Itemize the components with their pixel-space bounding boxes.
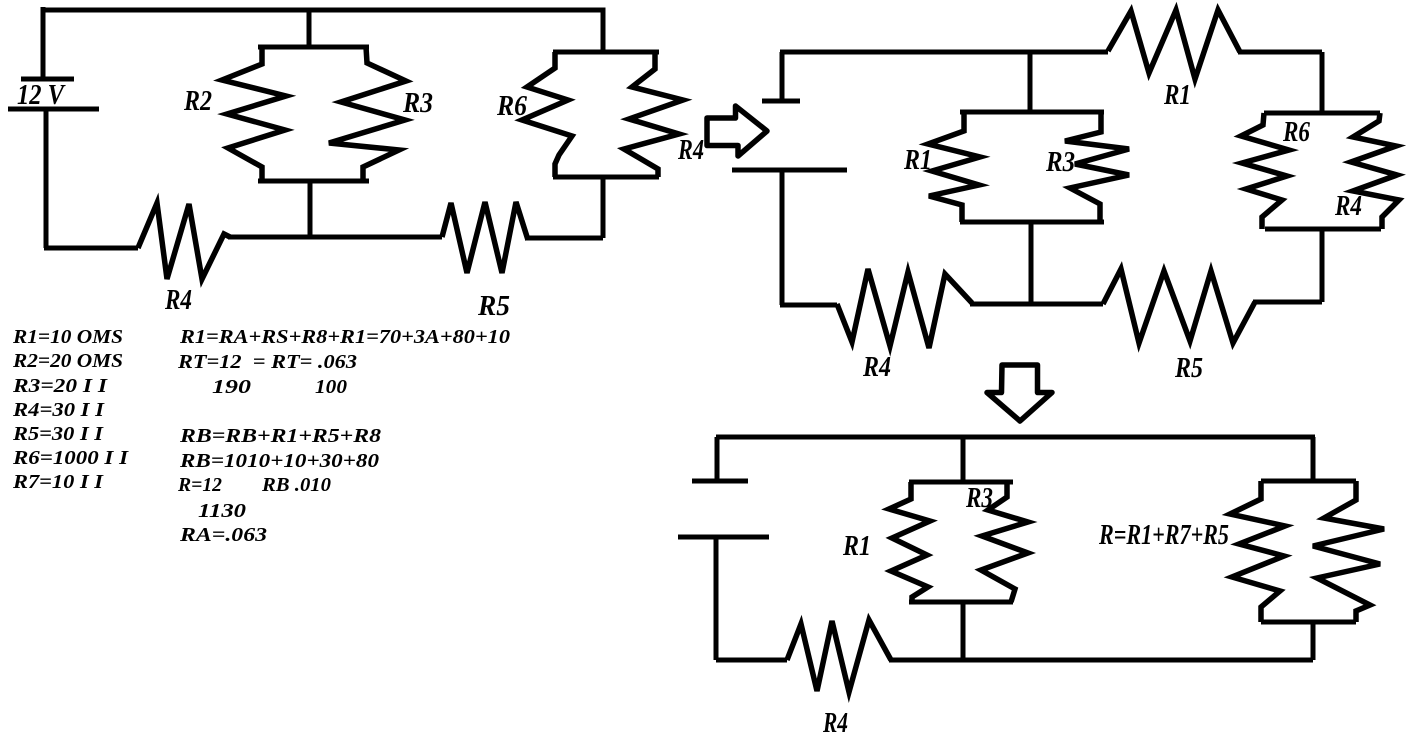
resistor R3 (329, 47, 406, 181)
wire bottom-left C2 (780, 303, 837, 308)
wire stub top pair R1R3 C2 (1028, 52, 1033, 112)
resistor R4 circuit2 (837, 269, 972, 348)
node pair R1R3 top bar C3 (909, 480, 1013, 485)
svg-text:R1: R1 (1163, 80, 1191, 111)
svg-text:RT=12 = RT= .063: RT=12 = RT= .063 (177, 351, 357, 373)
wire stub bottom right pair C3 (1311, 622, 1316, 660)
wire battery bottom lead C1 (44, 110, 49, 248)
node pair R2R3 top bar (258, 45, 369, 50)
svg-text:R6: R6 (496, 91, 527, 122)
svg-text:1130: 1130 (198, 500, 246, 522)
battery B3 negative terminal (678, 535, 769, 540)
svg-text:R6: R6 (1282, 117, 1310, 148)
wire top circuit1 (41, 10, 603, 52)
resistor R1 circuit2 (928, 112, 980, 222)
wire battery top lead C3 (715, 437, 720, 480)
resistor R4 circuit1 (138, 203, 230, 279)
wire bottom-right C1 (527, 236, 603, 241)
svg-text:R7=10 I I: R7=10 I I (12, 471, 104, 493)
svg-text:R2: R2 (183, 86, 212, 117)
svg-text:R3: R3 (1045, 147, 1075, 178)
resistor right of right pair C3 (1313, 481, 1384, 622)
svg-text:R3=20 I I: R3=20 I I (12, 375, 109, 397)
wire bottom-right C3 (889, 658, 1313, 663)
resistor R3 circuit2 (1065, 112, 1129, 222)
arrow down block (987, 365, 1052, 421)
svg-text:R=12: R=12 (177, 474, 222, 496)
node pair R1R3 bottom bar C3 (909, 600, 1013, 605)
wire right vertical top C2 (1320, 52, 1325, 113)
resistor R4 circuit2 pair (1351, 113, 1399, 229)
wire battery bottom lead C2 (780, 171, 785, 305)
battery B1 positive terminal (21, 77, 74, 82)
wire right vertical top C3 (1311, 437, 1316, 481)
battery B2 positive terminal (762, 99, 800, 104)
wire stub bottom pair R1R3 C3 (961, 602, 966, 660)
svg-text:R4: R4 (164, 285, 192, 316)
battery B1 negative terminal (8, 107, 99, 112)
svg-text:RB=1010+10+30+80: RB=1010+10+30+80 (179, 450, 379, 472)
svg-text:190: 190 (212, 376, 251, 398)
wire stub top pair R1R3 C3 (961, 437, 966, 482)
resistor R4 circuit3 (787, 620, 891, 692)
svg-text:R1: R1 (842, 531, 871, 562)
battery B2 negative terminal (732, 168, 847, 173)
resistor R1 circuit3 (889, 482, 930, 602)
svg-text:R4=30 I I: R4=30 I I (12, 399, 106, 421)
node pair R6R4 bottom bar (553, 175, 659, 180)
svg-text:RB=RB+R1+R5+R8: RB=RB+R1+R5+R8 (179, 425, 381, 447)
battery B3 positive terminal (692, 479, 748, 484)
resistor left of right pair C3 (1230, 481, 1285, 622)
wire battery bottom lead C3 (714, 538, 719, 660)
wire right stub up C1 (601, 179, 606, 238)
resistor R4 right of R6 (624, 52, 683, 177)
resistor R6 (522, 52, 572, 177)
svg-text:R5: R5 (1174, 353, 1203, 384)
node pair R6R4 bottom bar C2 (1265, 227, 1381, 232)
resistor R6 circuit2 (1241, 113, 1289, 229)
svg-text:R3: R3 (965, 483, 993, 514)
svg-text:RA=.063: RA=.063 (179, 524, 267, 546)
node pair R2R3 bottom bar (258, 179, 369, 184)
resistor R5 circuit2 (1103, 269, 1255, 343)
wire top circuit2 right (1238, 50, 1322, 55)
svg-text:R1: R1 (903, 145, 932, 176)
wire battery top lead C1 (41, 7, 46, 78)
node pair R1R3 top bar C2 (960, 110, 1104, 115)
svg-text:R2=20 OMS: R2=20 OMS (12, 350, 123, 372)
wire right vertical bottom C2 (1320, 229, 1325, 302)
svg-text:R5=30 I I: R5=30 I I (12, 423, 104, 445)
node pair R6R4 top bar C2 (1264, 111, 1380, 116)
wire top circuit2 left (780, 50, 1108, 55)
node pair R6R4 top bar (553, 50, 659, 55)
svg-text:R4: R4 (822, 708, 848, 739)
node pair right bottom bar C3 (1261, 620, 1356, 625)
wire bottom-left C1 (44, 246, 138, 251)
wire stub top to pair R2R3 (307, 10, 312, 47)
svg-text:R5: R5 (477, 291, 510, 322)
svg-text:RB .010: RB .010 (261, 474, 331, 496)
resistor R3 circuit3 (981, 482, 1028, 602)
svg-text:100: 100 (315, 376, 347, 398)
svg-text:R4: R4 (677, 135, 704, 166)
svg-text:R4: R4 (862, 352, 891, 383)
wire bottom-right C2 (1253, 300, 1322, 305)
svg-text:12 V: 12 V (17, 80, 66, 111)
svg-text:R6=1000 I I: R6=1000 I I (12, 447, 130, 469)
svg-text:R3: R3 (402, 88, 433, 119)
svg-text:R1=10 OMS: R1=10 OMS (12, 326, 123, 348)
resistor R2 (222, 47, 286, 181)
arrow right block (707, 106, 767, 156)
svg-text:R1=RA+RS+R8+R1=70+3A+80+10: R1=RA+RS+R8+R1=70+3A+80+10 (179, 326, 510, 348)
wire bottom-mid C1 (228, 235, 442, 240)
node pair right top bar C3 (1261, 479, 1356, 484)
wire bottom-left C3 (716, 658, 787, 663)
resistor R5 circuit1 (442, 202, 528, 273)
wire top circuit3 (716, 435, 1315, 440)
resistor R1 top circuit2 (1108, 10, 1240, 79)
svg-text:R4: R4 (1334, 191, 1362, 222)
svg-text:R=R1+R7+R5: R=R1+R7+R5 (1098, 520, 1229, 551)
wire stub bottom pair R2R3 (308, 181, 313, 237)
wire bottom-mid C2 (970, 302, 1103, 307)
node pair R1R3 bottom bar C2 (960, 220, 1104, 225)
wire stub bottom pair R1R3 C2 (1029, 222, 1034, 303)
wire battery top lead C2 (780, 52, 785, 100)
